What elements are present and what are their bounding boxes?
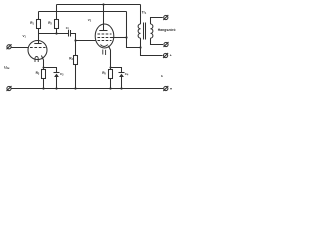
mark minus right (170, 88, 172, 90)
capacitor C4 cathode bypass V2 (119, 73, 125, 89)
svg-text:Ube: Ube (4, 66, 10, 71)
capacitor C1 coupling (69, 30, 76, 41)
wire upper supply rail (57, 4, 141, 6)
svg-text:+: + (170, 54, 172, 58)
capacitor C3 cathode bypass (54, 73, 60, 89)
resistor R1 (37, 12, 41, 45)
transformer secondary (151, 18, 164, 45)
terminal B+ (163, 53, 168, 58)
node grid junction (74, 39, 76, 41)
wire cathode branch V1 (44, 68, 57, 73)
transformer Tr1 primary (138, 5, 163, 56)
svg-text:Tr1: Tr1 (142, 11, 147, 16)
wire ground bus (11, 88, 163, 90)
pentode V2 (95, 24, 114, 55)
svg-text:b: b (161, 74, 163, 78)
terminal ground right (163, 86, 168, 91)
resistor R2 (55, 5, 59, 34)
terminal speaker bottom (164, 42, 169, 47)
wire cathode V2 (108, 46, 110, 68)
node primary/B+ junction (139, 46, 141, 48)
triode V1 (28, 41, 47, 68)
resistor R4 grid leak (74, 41, 78, 89)
terminal speaker top (163, 15, 168, 20)
wire g2 to B+ (111, 37, 127, 39)
resistor R3 cathode (42, 68, 46, 89)
node anode junction (55, 32, 57, 34)
transformer core (143, 23, 145, 40)
wire lower supply rail (39, 11, 127, 13)
wire anode node (39, 33, 69, 35)
terminal ground left (7, 86, 12, 91)
resistor R5 cathode V2 (109, 68, 113, 89)
terminal input (7, 44, 29, 49)
wire anode V2 (103, 5, 105, 31)
wire g1 (76, 40, 97, 42)
svg-text:Hangszóró: Hangszóró (158, 28, 176, 32)
node anode rail junction (102, 3, 104, 5)
